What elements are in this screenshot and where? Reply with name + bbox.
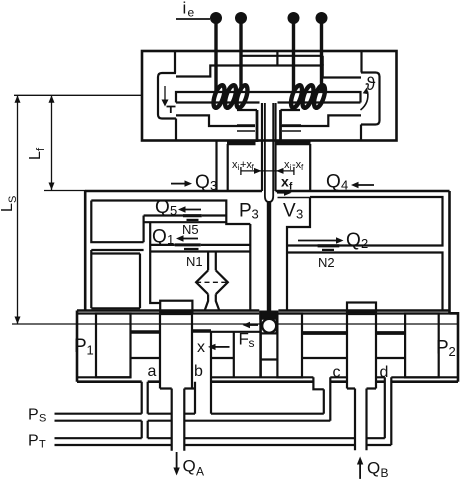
V3 chamber right wall and step — [287, 197, 310, 310]
terminal dot 1 — [210, 12, 222, 24]
svg-text:3: 3 — [210, 178, 217, 193]
spool surface under ball — [261, 332, 277, 334]
terminal dot 4 — [316, 12, 328, 24]
inner top line left (Q3 passage floor) — [91, 201, 250, 225]
neck wall left inner — [227, 144, 229, 190]
support notch right — [282, 125, 301, 131]
wire lead 4 — [320, 22, 323, 92]
port b stub — [210, 358, 212, 414]
Q1 channel bottom line — [150, 250, 250, 252]
wire lead 2 — [239, 22, 242, 92]
nozzle N5 — [183, 214, 202, 217]
ball seat right wall — [276, 311, 279, 333]
spool rod center-right — [302, 331, 347, 335]
neck cap left thick — [227, 141, 256, 145]
spool rod left — [131, 330, 161, 334]
svg-text:S: S — [39, 413, 46, 425]
QA channel — [172, 389, 185, 451]
valve body top edge — [85, 190, 449, 193]
left channel lower line — [91, 249, 143, 251]
svg-text:x: x — [197, 339, 205, 356]
svg-text:Q: Q — [326, 172, 341, 193]
svg-text:Q: Q — [195, 172, 210, 193]
port d PT stub — [385, 377, 392, 445]
upper pole piece stepped bottom — [176, 66, 361, 78]
arrow Q1 — [182, 238, 198, 240]
port c stub — [313, 377, 330, 420]
valve body right edge — [448, 191, 451, 313]
floor inside ball column — [261, 358, 277, 360]
port T feed stub left upper — [142, 382, 148, 414]
arrow Q2 — [298, 240, 337, 242]
svg-text:B: B — [381, 466, 389, 480]
svg-text:3: 3 — [252, 207, 259, 222]
arrow x — [214, 346, 230, 348]
Q5 channel floor left — [144, 214, 227, 216]
ball seat dark filler — [259, 311, 278, 320]
wire lead 3 — [292, 22, 295, 92]
pole piece wall below left pocket — [175, 119, 177, 141]
PT return line upper — [55, 437, 385, 439]
arrow Q5 — [184, 209, 201, 211]
right coil winding — [289, 84, 327, 109]
PS supply line lower — [55, 420, 331, 422]
chamber top line at ball — [211, 331, 261, 333]
Q5 divider wall — [143, 216, 145, 243]
svg-text:e: e — [188, 6, 195, 20]
spool rod right — [376, 331, 405, 335]
svg-text:P: P — [28, 433, 39, 450]
filter channel upper — [208, 252, 216, 270]
flapper tube outer left — [261, 103, 263, 191]
terminal dot 3 — [288, 12, 300, 24]
dimension line xi at flapper — [241, 167, 294, 175]
spool land 5 — [405, 314, 439, 378]
svg-text:P: P — [436, 338, 449, 359]
spool land 2 with pilot cap — [160, 301, 192, 312]
svg-text:S: S — [7, 196, 19, 203]
flexure anchor T — [167, 107, 176, 114]
spool bore top line — [78, 312, 458, 314]
left coil winding — [211, 84, 249, 109]
port T feed stub left lower — [142, 421, 148, 439]
armature deflection arrow in left pocket — [164, 86, 166, 102]
PT return line lower — [55, 444, 392, 446]
flapper support wall left — [256, 110, 259, 142]
lower pole piece right step — [281, 115, 361, 126]
neck wall right — [309, 144, 311, 190]
right armature pocket — [361, 73, 380, 125]
svg-text:x: x — [281, 174, 289, 190]
svg-text:5: 5 — [170, 203, 177, 218]
label Lf — [27, 147, 47, 160]
torque motor housing outer — [142, 51, 397, 141]
svg-text:Q: Q — [183, 457, 196, 476]
svg-text:a: a — [148, 363, 157, 380]
spool land 1 — [96, 314, 131, 378]
feedback ball — [262, 319, 276, 333]
arrow QB in — [359, 464, 361, 479]
annulus floor port d — [376, 357, 405, 359]
annulus floor port c — [302, 357, 347, 359]
svg-text:Q: Q — [346, 230, 361, 251]
port a-b tee stub to QA — [160, 382, 195, 414]
pole divider vertical — [276, 52, 278, 66]
Q1 channel top line — [150, 244, 250, 246]
svg-text:Q: Q — [367, 459, 380, 478]
ball seat left wall — [259, 311, 262, 378]
annulus floor left of land2 — [131, 357, 161, 359]
spool body bottom edge — [77, 380, 458, 383]
armature bar — [176, 92, 361, 103]
dimension Lf bottom reference — [44, 190, 86, 192]
QB channel — [355, 389, 367, 451]
label Ls — [0, 196, 19, 212]
support notch left — [237, 125, 255, 131]
wire lead 1 — [214, 22, 217, 92]
filter element diamond — [196, 270, 228, 294]
spool centerline — [12, 323, 458, 325]
filter dashed axis — [196, 281, 228, 283]
theta rotation arrow — [361, 92, 368, 111]
svg-text:2: 2 — [361, 236, 368, 251]
svg-text:Q: Q — [155, 197, 170, 218]
upper pole piece right vertical — [360, 52, 362, 73]
svg-text:3: 3 — [296, 207, 303, 222]
c stub to PS — [323, 389, 325, 413]
svg-text:2: 2 — [449, 344, 456, 359]
arrow Q3 — [171, 183, 186, 185]
svg-text:s: s — [249, 336, 255, 350]
upper pole piece left vertical — [174, 52, 176, 73]
flapper blade — [267, 201, 271, 314]
P3 chamber left wall — [249, 224, 251, 310]
spool body left end — [76, 311, 79, 382]
lower pole piece left step — [176, 115, 255, 126]
support wall left top ledge — [237, 109, 257, 111]
arrow Q4 — [357, 184, 374, 186]
svg-text:4: 4 — [341, 178, 348, 193]
dimension Lf line — [51, 95, 53, 190]
arrow Fs — [249, 324, 258, 326]
Q1 area left wall — [150, 222, 160, 303]
port d tee stub to QB — [347, 387, 376, 389]
svg-text:L: L — [0, 203, 16, 212]
upper magnet line — [241, 56, 322, 66]
svg-text:N2: N2 — [318, 255, 335, 270]
arrow QA out — [176, 452, 178, 468]
spool land 4 with pilot cap — [347, 303, 376, 312]
flapper tube inner sleeve — [265, 103, 273, 202]
left chamber walls — [91, 250, 140, 308]
support wall right top ledge — [281, 109, 301, 111]
filter channel lower — [205, 294, 220, 311]
svg-text:A: A — [196, 465, 204, 479]
svg-text:b: b — [194, 363, 203, 380]
svg-text:P: P — [74, 336, 87, 357]
spool bore bottom line — [77, 376, 458, 378]
short inner line right of tube — [278, 197, 311, 199]
svg-text:P: P — [239, 201, 252, 222]
svg-text:N5: N5 — [182, 222, 199, 237]
svg-text:F: F — [239, 330, 249, 349]
dimension Ls line — [17, 95, 19, 324]
x chamber walls — [211, 331, 234, 377]
flapper support wall right — [279, 110, 282, 142]
left flexure pocket — [158, 73, 176, 119]
inner left channel wall — [91, 201, 143, 243]
svg-text:i: i — [183, 0, 187, 18]
PS supply line upper — [55, 413, 324, 415]
svg-text:P: P — [28, 407, 39, 424]
flapper tube outer right — [274, 103, 276, 191]
spool land 3 — [277, 314, 302, 378]
Q2 channel bottom line — [287, 253, 443, 312]
svg-text:L: L — [27, 151, 44, 160]
arrow xf direction — [277, 192, 285, 194]
neck wall far left — [215, 141, 217, 191]
nozzle N1 — [175, 243, 201, 246]
svg-text:T: T — [39, 439, 46, 451]
pole piece wall below right pocket — [360, 125, 362, 141]
svg-text:V: V — [283, 201, 296, 222]
spool rod center-left — [192, 329, 211, 332]
spool body top edge — [77, 309, 450, 312]
dimension reference line top — [14, 94, 142, 96]
nozzle N2 — [318, 244, 340, 247]
neck cap right thick — [277, 141, 311, 145]
ie lead line — [176, 18, 210, 20]
valve body left edge — [84, 191, 87, 311]
svg-text:c: c — [333, 364, 341, 381]
svg-text:N1: N1 — [186, 254, 203, 269]
spool body right end step — [450, 313, 459, 381]
inner top line right (Q4 passage floor) — [287, 197, 443, 246]
terminal dot 2 — [235, 12, 247, 24]
svg-text:1: 1 — [87, 343, 94, 358]
